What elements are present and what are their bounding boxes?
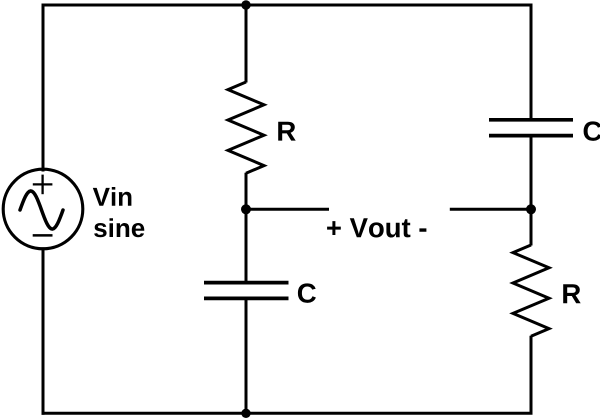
label R2 value R	[563, 284, 581, 303]
wire: right branch upper	[530, 5, 533, 120]
capacitor C1 (middle)	[204, 283, 289, 299]
label + Vout -	[327, 218, 426, 237]
capacitor C2 (right)	[489, 120, 573, 136]
label C2 value C	[584, 121, 600, 140]
node: bottom junction	[241, 409, 250, 418]
wire: bottom rail	[43, 412, 531, 415]
node: Vout negative node	[526, 204, 536, 214]
wire: Vout positive stub	[246, 208, 329, 211]
node: top junction	[241, 0, 250, 9]
wire: middle branch upper	[245, 5, 248, 83]
wire: right branch lower	[530, 336, 533, 414]
wire: top rail	[43, 4, 531, 7]
wire: Vout negative stub	[450, 208, 531, 211]
label sine	[94, 218, 144, 237]
label R1 value R	[278, 122, 296, 141]
wire: middle branch lower	[245, 298, 248, 413]
wire: right branch between C2 and R2	[530, 136, 533, 246]
node: Vout positive node	[241, 204, 251, 214]
resistor R1 (middle)	[228, 82, 264, 173]
label C1 value C	[298, 283, 316, 303]
wire: left rail upper	[42, 5, 45, 170]
resistor R2 (right)	[513, 245, 549, 336]
wire: middle branch between R1 and C1	[245, 173, 248, 283]
wire: left rail lower	[42, 249, 45, 413]
source V1 (Vin sine)	[3, 169, 83, 249]
label Vin	[93, 187, 132, 206]
